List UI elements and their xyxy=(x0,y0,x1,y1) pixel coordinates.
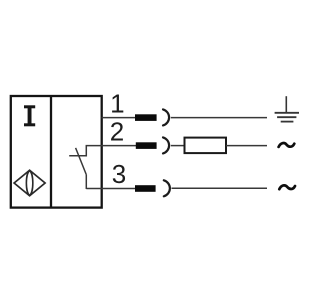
wire pin 3 to connector xyxy=(86,188,140,190)
wire load resistor to AC source xyxy=(226,145,267,147)
connector arc line 2 xyxy=(163,137,169,153)
proximity sensor symbol inner lens right xyxy=(30,171,33,196)
connector arc line 3 xyxy=(164,180,170,196)
wire line 2 to load resistor xyxy=(171,145,185,147)
svg-text:2: 2 xyxy=(110,117,124,147)
proximity sensor symbol inner lens left xyxy=(26,171,29,196)
svg-text:3: 3 xyxy=(112,159,126,189)
connector arc line 1 xyxy=(163,109,169,125)
switch contact wire from pin 2 xyxy=(69,146,101,156)
wire line 1 to ground xyxy=(171,117,267,119)
pin 3 connector bar xyxy=(135,185,156,192)
AC supply symbol line 3 xyxy=(279,185,295,189)
pin 2 connector bar xyxy=(136,142,157,149)
pin 1 connector bar xyxy=(135,114,157,121)
load resistor xyxy=(185,138,227,154)
sensor body divider xyxy=(50,96,52,208)
wire pin 2 to connector xyxy=(102,145,141,147)
switch riser to pin 3 wire xyxy=(85,175,87,189)
proximity sensor symbol (diamond) xyxy=(14,170,45,196)
switch lever xyxy=(76,148,87,175)
AC supply symbol line 2 xyxy=(279,143,295,147)
sensor body outline xyxy=(11,96,102,208)
inductive sensing label I xyxy=(24,105,35,126)
ground symbol xyxy=(275,96,299,121)
wire pin 1 to connector xyxy=(102,117,141,119)
wire line 3 to AC source xyxy=(172,187,268,189)
svg-text:1: 1 xyxy=(110,89,124,119)
